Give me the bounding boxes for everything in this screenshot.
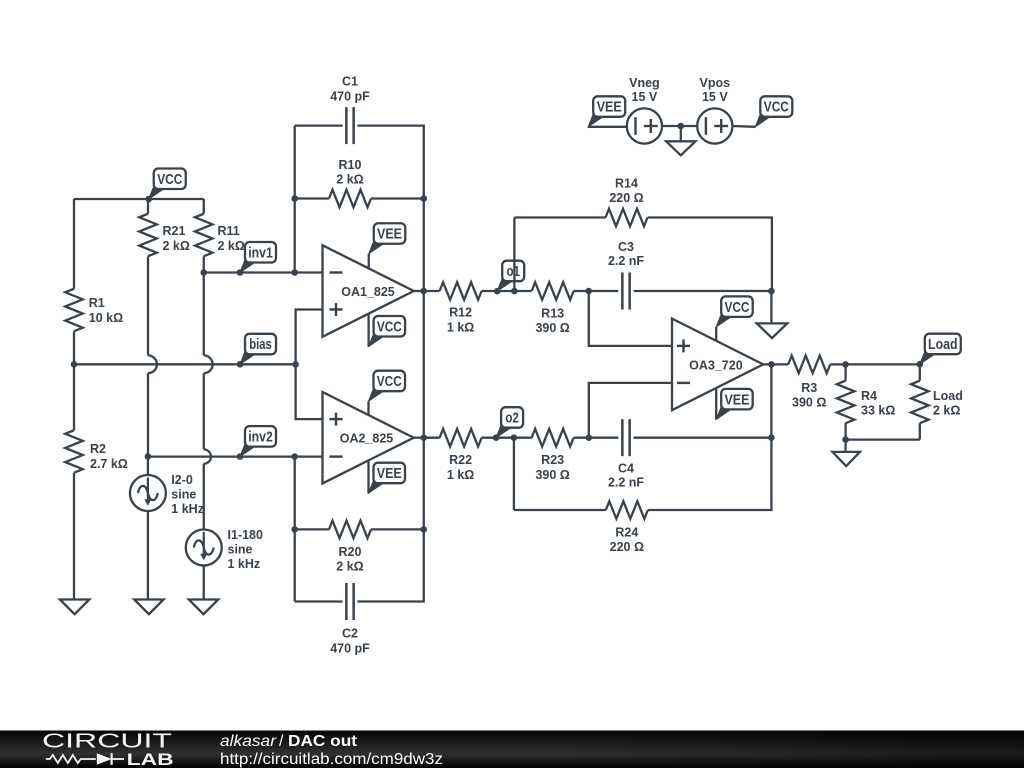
wire R24 left column: [513, 438, 515, 510]
svg-text:2.2 nF: 2.2 nF: [608, 254, 644, 268]
wire OA1 plus input bend: [296, 310, 323, 365]
junction bias tail: [237, 361, 244, 368]
OA2 plus symbol: [330, 413, 343, 426]
svg-text:VCC: VCC: [157, 171, 182, 188]
svg-text:R3: R3: [801, 381, 817, 395]
wire OA3 out column down: [770, 364, 772, 437]
svg-text:http://circuitlab.com/cm9dw3z: http://circuitlab.com/cm9dw3z: [220, 751, 443, 768]
net flag VCC (OA3): [716, 296, 753, 327]
wire C3 right to ground: [770, 291, 772, 323]
OA3 plus symbol: [677, 339, 690, 352]
footer title and url: [220, 733, 443, 768]
svg-text:R2: R2: [90, 442, 106, 456]
svg-text:1 kHz: 1 kHz: [171, 502, 204, 516]
wire C2 left column: [294, 457, 296, 602]
junction OA1 output: [420, 288, 427, 295]
wire hop over bias (x=148): [148, 355, 157, 373]
OA2 output stub: [414, 437, 424, 439]
junction supply center: [678, 123, 685, 130]
voltage source Vneg: [627, 76, 662, 144]
resistor R24: [606, 501, 648, 554]
svg-text:VEE: VEE: [377, 226, 402, 243]
svg-text:C3: C3: [618, 240, 634, 254]
wire C3 right lead: [634, 290, 772, 292]
svg-text:VCC: VCC: [724, 299, 749, 316]
junction Load corner: [917, 361, 924, 368]
footer bar: [0, 731, 1024, 768]
resistor R14: [606, 177, 648, 227]
svg-text:470 pF: 470 pF: [330, 90, 370, 104]
capacitor C1: [330, 75, 370, 145]
wire R14 left lead: [514, 216, 605, 218]
junction inv1/C1-column: [291, 269, 298, 276]
wire o1 to R13: [514, 290, 531, 292]
wire R10 left lead: [295, 197, 329, 199]
svg-text:1 kHz: 1 kHz: [228, 557, 261, 571]
wire OA2 out to R22: [424, 437, 440, 439]
capacitor C3: [608, 240, 644, 310]
svg-text:R23: R23: [541, 453, 564, 467]
svg-text:R12: R12: [449, 306, 472, 320]
wire feedback column OA1-OA2: [423, 291, 425, 438]
svg-text:R20: R20: [339, 545, 362, 559]
net flag VEE (OA2): [369, 463, 406, 494]
resistor R10: [329, 158, 371, 207]
resistor R3: [788, 356, 830, 410]
CircuitLab logo: [42, 731, 174, 768]
wire R24 right lead: [648, 438, 772, 510]
svg-text:R22: R22: [449, 453, 472, 467]
OA1 minus symbol: [330, 271, 343, 273]
wire R4 top lead: [844, 364, 846, 380]
wire VCC rail top-left: [74, 198, 204, 200]
svg-text:10 kΩ: 10 kΩ: [89, 311, 123, 325]
OA3 output stub: [763, 363, 771, 365]
junction OA3 minus branch: [586, 434, 593, 441]
junction R24 branch: [511, 434, 518, 441]
wire Vneg to center node: [662, 125, 697, 127]
ground (supply): [666, 141, 695, 155]
wire inv2 hop to I1 source: [203, 464, 205, 530]
wire inv2 node to I2 source: [147, 456, 149, 475]
OA3 minus symbol: [677, 382, 690, 384]
wire OA1 out to R12: [424, 290, 440, 292]
svg-text:C1: C1: [342, 75, 358, 89]
OA2 VCC pin stub: [367, 401, 369, 415]
net flag VCC (OA1): [369, 316, 406, 347]
svg-text:R11: R11: [218, 224, 240, 238]
wire R11 top lead: [203, 199, 205, 214]
junction C4 right: [768, 434, 775, 441]
capacitor C2: [330, 583, 370, 656]
svg-text:Vneg: Vneg: [629, 76, 660, 90]
svg-text:15 V: 15 V: [632, 90, 658, 104]
node bias-left junction: [71, 361, 78, 368]
wire R12 to o1 node: [482, 290, 515, 292]
junction R20 left: [291, 526, 298, 533]
resistor R2: [65, 430, 128, 472]
OA1 VEE pin stub: [368, 254, 370, 269]
wire OA3 out to R3: [771, 363, 788, 365]
junction o2 tail: [493, 434, 500, 441]
svg-text:OA2_825: OA2_825: [340, 432, 394, 446]
svg-text:sine: sine: [171, 488, 196, 502]
op-amp OA3_720 body: [672, 319, 763, 411]
svg-text:OA1_825: OA1_825: [341, 285, 395, 299]
node inv1/R11 junction: [200, 269, 207, 276]
wire R11 column to bias hop: [203, 273, 205, 356]
voltage source Vpos: [697, 76, 732, 144]
wire bias hop to inv2 node: [147, 373, 149, 456]
svg-text:bias: bias: [249, 336, 272, 353]
capacitor C4: [608, 419, 644, 489]
net flag VCC (left rail): [149, 169, 186, 200]
wire R20 left lead: [295, 528, 329, 530]
resistor R23: [532, 429, 574, 482]
svg-text:LAB: LAB: [127, 750, 174, 768]
svg-text:15 V: 15 V: [702, 90, 728, 104]
resistor Load: [911, 381, 963, 423]
wire bias net: [74, 363, 296, 365]
junction VCC rail: [145, 196, 152, 203]
svg-text:R24: R24: [615, 526, 638, 540]
net flag VEE (supply): [588, 96, 625, 127]
svg-text:sine: sine: [228, 543, 253, 557]
svg-text:VCC: VCC: [764, 99, 789, 116]
wire o2 node to OA3 minus: [589, 383, 672, 438]
junction R10 left: [291, 195, 298, 202]
svg-text:I2-0: I2-0: [171, 473, 193, 487]
wire R14 left column: [513, 218, 515, 292]
resistor R1: [65, 289, 123, 331]
wire R3 to R4 node: [830, 363, 845, 365]
wire C2 left lead: [295, 600, 343, 602]
OA3 VEE pin stub: [715, 388, 717, 420]
resistor R22: [440, 429, 482, 482]
current source I2-0: [130, 473, 204, 516]
resistor R21: [139, 214, 190, 256]
junction OA3 plus branch: [585, 288, 592, 295]
svg-text:OA3_720: OA3_720: [689, 359, 743, 373]
svg-text:470 pF: 470 pF: [330, 642, 370, 656]
net flag inv2: [240, 426, 276, 457]
svg-text:1 kΩ: 1 kΩ: [447, 321, 474, 335]
svg-text:R13: R13: [541, 306, 564, 320]
wire OA2 plus input bend: [296, 364, 323, 419]
svg-text:2.7 kΩ: 2.7 kΩ: [90, 457, 128, 471]
wire R23 to C4 node: [574, 437, 619, 439]
wire R11 bottom lead: [203, 256, 205, 272]
wire Vpos to VCC tail: [732, 125, 755, 128]
svg-text:R10: R10: [339, 158, 362, 172]
junction OA3 output: [768, 361, 775, 368]
ground (under I2-0): [134, 600, 163, 615]
wire R14 right lead: [648, 218, 772, 292]
wire R24 left lead: [514, 509, 606, 511]
wire I2 source to ground: [147, 511, 149, 600]
wire bias hop to inv2 hop: [203, 373, 205, 449]
junction inv2/C2-column: [291, 453, 298, 460]
junction o1 tail: [494, 288, 501, 295]
svg-text:inv2: inv2: [248, 429, 273, 446]
svg-text:R4: R4: [861, 389, 877, 403]
ground (under R4): [833, 452, 860, 466]
OA1 output stub: [414, 290, 424, 292]
svg-text:R21: R21: [163, 224, 186, 238]
OA3 VCC pin stub: [715, 327, 717, 340]
svg-text:VEE: VEE: [724, 391, 749, 408]
svg-text:33 kΩ: 33 kΩ: [861, 404, 895, 418]
svg-text:2 kΩ: 2 kΩ: [163, 239, 190, 253]
node inv2-left junction: [145, 453, 152, 460]
wire Load bottom lead: [919, 423, 921, 439]
svg-text:I1-180: I1-180: [228, 528, 263, 542]
op-amp OA1_825 body: [323, 245, 414, 337]
svg-text:2 kΩ: 2 kΩ: [336, 560, 363, 574]
svg-text:VEE: VEE: [377, 465, 402, 482]
junction C3 right: [768, 288, 775, 295]
wire R21 top lead: [147, 199, 149, 214]
wire R2 to ground: [73, 473, 75, 600]
wire R4/Load bottom: [846, 438, 920, 440]
wire I1 source to ground: [203, 566, 205, 600]
net flag bias: [240, 334, 276, 365]
ground (under R1/R2): [60, 600, 89, 615]
svg-text:2 kΩ: 2 kΩ: [336, 173, 363, 187]
wire R21 down to bias hop: [147, 256, 149, 355]
svg-text:390 Ω: 390 Ω: [535, 468, 569, 482]
junction R4 bottom: [842, 436, 849, 443]
OA2 VEE pin stub: [367, 460, 369, 493]
wire inv2 net: [148, 455, 323, 457]
OA2 minus symbol: [330, 455, 343, 457]
svg-text:Load: Load: [928, 336, 958, 353]
wire C1 left lead: [295, 124, 343, 126]
wire R4 node to ground: [844, 440, 846, 452]
junction inv2 tail: [237, 453, 244, 460]
wire C1 left column: [294, 126, 296, 273]
junction inv1 tail: [237, 269, 244, 276]
net flag o2: [496, 407, 523, 438]
svg-text:DAC out: DAC out: [288, 733, 358, 750]
wire R4 bottom lead: [844, 423, 846, 439]
wire R2 top lead: [73, 364, 75, 430]
svg-text:alkasar: alkasar: [220, 733, 277, 750]
wire VEE tail to Vneg: [588, 126, 627, 128]
net flag inv1: [240, 242, 276, 273]
wire C4 right lead: [634, 437, 772, 439]
resistor R20: [329, 521, 371, 574]
ground (C3/R14 column): [757, 323, 787, 338]
wire inv1 net: [204, 271, 323, 273]
svg-text:220 Ω: 220 Ω: [609, 191, 643, 205]
junction R20 right: [420, 526, 427, 533]
svg-text:inv1: inv1: [248, 244, 273, 261]
svg-text:R14: R14: [615, 177, 638, 191]
svg-text:390 Ω: 390 Ω: [792, 396, 826, 410]
svg-text:2 kΩ: 2 kΩ: [933, 404, 960, 418]
resistor R11: [195, 214, 245, 256]
wire Load resistor top lead: [919, 364, 921, 380]
junction R3/R4: [842, 361, 849, 368]
ground (under I1-180): [189, 600, 218, 615]
svg-text:VCC: VCC: [377, 318, 402, 335]
wire R22 to o2 node: [482, 437, 514, 439]
svg-text:2.2 nF: 2.2 nF: [608, 475, 644, 489]
junction OA2 output: [420, 434, 427, 441]
svg-text:VEE: VEE: [597, 99, 622, 116]
wire hop over inv2 (x=204): [204, 449, 211, 463]
wire R1 top lead: [73, 199, 75, 289]
svg-text:Load: Load: [933, 389, 963, 403]
wire R10 right lead: [371, 197, 424, 199]
OA1 VCC pin stub: [367, 313, 369, 346]
svg-text:VCC: VCC: [377, 373, 402, 390]
svg-text:C2: C2: [342, 627, 358, 641]
svg-text:C4: C4: [618, 461, 634, 475]
resistor R4: [837, 381, 896, 423]
junction R10 right: [420, 195, 427, 202]
net flag Load: [920, 334, 961, 365]
svg-text:1 kΩ: 1 kΩ: [447, 468, 474, 482]
svg-text:390 Ω: 390 Ω: [535, 321, 569, 335]
wire o1 node to OA3 plus: [589, 291, 672, 346]
op-amp OA2_825 body: [323, 392, 414, 484]
current source I1-180: [186, 528, 263, 571]
wire C2 right lead: [357, 438, 423, 602]
wire hop over bias (x=204): [204, 355, 213, 373]
net flag VEE (OA1): [369, 223, 406, 254]
OA1 plus symbol: [330, 303, 343, 316]
wire R13 to C3 node: [574, 290, 619, 292]
svg-text:o1: o1: [506, 263, 520, 280]
wire R1 bottom lead: [73, 331, 75, 364]
wire C1 right lead: [357, 126, 423, 199]
junction bias right: [292, 361, 299, 368]
resistor R13: [532, 282, 574, 335]
wire feedback column to OA1 out: [423, 199, 425, 292]
resistor R12: [440, 282, 482, 334]
wire center node to ground: [680, 126, 682, 141]
junction R14 branch (top): [511, 288, 518, 295]
net flag o1: [497, 261, 524, 292]
wire R20 right lead: [371, 528, 424, 530]
svg-text:220 Ω: 220 Ω: [610, 540, 644, 554]
net flag VCC (supply): [755, 96, 792, 127]
svg-text:2 kΩ: 2 kΩ: [218, 239, 245, 253]
svg-text:Vpos: Vpos: [700, 76, 731, 90]
net flag VCC (OA2): [369, 371, 406, 402]
net flag VEE (OA3): [716, 389, 753, 420]
svg-text:R1: R1: [89, 296, 105, 310]
wire o2 to R23: [514, 437, 532, 439]
svg-text:o2: o2: [505, 410, 519, 427]
svg-text:/: /: [279, 733, 284, 750]
wire R4 node to Load corner: [846, 363, 920, 365]
